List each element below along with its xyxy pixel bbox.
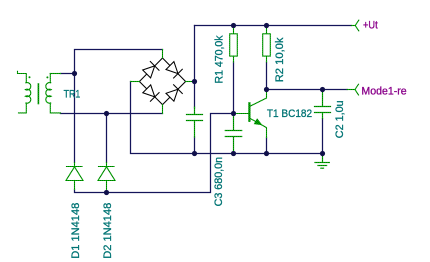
terminal Mode1-re [347,84,358,95]
wire C2 bottom lead [322,119,324,154]
junction C2 / ground [320,151,325,156]
wire R1 bottom lead [233,62,235,114]
wire C1 bottom lead [194,137,196,154]
svg-text:R1 470,0k: R1 470,0k [213,35,225,83]
junction C1 / bottom rail [192,151,197,156]
svg-text:Mode1-re: Mode1-re [361,85,406,97]
diode D1 [66,163,83,190]
capacitor C2 [315,90,331,119]
wire top rail to +Ut [195,25,352,27]
bridge corner stubs [131,50,195,114]
junction R1 / +Ut rail [231,23,236,28]
junction R2 / +Ut rail [264,23,269,28]
svg-text:+Ut: +Ut [363,19,378,31]
junction emitter / bottom rail [264,151,269,156]
wire emitter drop [266,138,268,154]
junction D2 anode / return wire [104,190,109,195]
junction C2 / Mode1-re rail [320,87,325,92]
junction C3 / bottom rail [231,151,236,156]
diode on top-left edge (points to top corner) [143,62,159,78]
junction secondary bottom / D2 [104,111,109,116]
diode on bottom-right edge (points to right corner) [166,85,182,101]
diode on top-right edge (points to right corner) [166,62,182,78]
transformer polarity dots [29,76,31,78]
wire bridge top corner up-and-left [75,50,163,163]
transformer TR1 [18,71,61,113]
resistor R2 [263,26,271,63]
svg-text:TR1: TR1 [64,89,81,101]
diamond edges [139,58,162,82]
transistor T1 BC182 [234,90,267,138]
svg-text:C3 680,0n: C3 680,0n [213,157,225,207]
svg-text:C2 1,0u: C2 1,0u [334,100,346,138]
svg-text:D1 1N4148: D1 1N4148 [70,203,82,259]
wire transformer secondary top lead [61,73,75,75]
capacitor C1 (under bridge right corner) [187,107,203,137]
junction R1 / base node [231,111,236,116]
diode D2 [98,163,115,193]
ground [315,154,329,169]
wire bridge left corner down then bottom rail [131,82,323,154]
svg-text:T1 BC182: T1 BC182 [267,108,312,120]
wire R2 bottom lead [266,62,268,90]
wire collector node to Mode1-re [267,89,348,91]
bridge rectifier [139,58,185,105]
junction collector / R2 / Mode1-re [264,87,269,92]
wire D1 D2 anode return up to base node [75,114,234,193]
terminal +Ut [352,20,359,31]
svg-text:D2 1N4148: D2 1N4148 [102,203,114,259]
junction secondary top / D1 [72,71,77,76]
junction bridge + output / C1 [192,79,197,84]
resistor R1 [230,26,238,63]
capacitor C3 [225,114,241,154]
diode on bottom-left edge (points to bottom corner) [143,85,159,101]
wire transformer secondary bottom to bridge bottom [61,113,163,115]
wire D2 drop [106,114,108,163]
svg-text:R2 10,0k: R2 10,0k [274,37,286,82]
wire bridge right corner up to rail / down to C1 [194,26,196,109]
